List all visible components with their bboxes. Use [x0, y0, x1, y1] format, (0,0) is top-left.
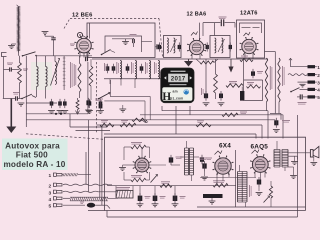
- IF T2 trimmer caps: [206, 42, 233, 51]
- ground G3: [112, 39, 134, 45]
- wire badge drops: [162, 106, 190, 134]
- label tube 12AT6: [240, 11, 258, 17]
- svg-text:4: 4: [49, 197, 52, 203]
- connector pin 1: [308, 65, 320, 70]
- svg-text:3: 3: [49, 190, 52, 196]
- switch S1c: [101, 50, 115, 56]
- wire rail R4: [97, 124, 263, 126]
- label values rotated: [71, 62, 76, 88]
- resistor R21 below V4: [124, 172, 150, 182]
- ground G7: [288, 167, 297, 179]
- resistor R15: [213, 181, 228, 187]
- capacitor C9: [130, 35, 137, 48]
- svg-text:12 BE6: 12 BE6: [72, 12, 93, 18]
- wire bank bottom rail: [104, 78, 161, 80]
- svg-text:6AQ5: 6AQ5: [251, 144, 269, 151]
- iron choke CH2: [116, 186, 133, 198]
- wire mid row: [26, 102, 57, 104]
- wire V3 pins: [245, 53, 253, 59]
- resistor R2: [78, 56, 81, 98]
- plug 5 left: [49, 202, 111, 210]
- wire vertical bus x26: [25, 56, 27, 127]
- svg-text:EL.com: EL.com: [170, 97, 183, 101]
- oscillator inner box: [105, 36, 152, 52]
- connector pin 4: [308, 88, 320, 93]
- wire pin2 coiled: [288, 74, 307, 76]
- wire bank drops: [110, 79, 135, 88]
- wire V1 pins: [70, 44, 88, 58]
- svg-text:Autovox para: Autovox para: [5, 141, 60, 150]
- wire rail y113.8: [26, 113, 88, 115]
- capacitor C1: [45, 36, 56, 56]
- svg-text:1: 1: [49, 173, 52, 179]
- capacitor C16: [85, 98, 92, 113]
- oscillator box B1: [87, 23, 155, 58]
- tube V1 12BE6: [74, 31, 93, 54]
- multi-section capacitor: [203, 194, 223, 204]
- resistor R16: [160, 182, 172, 188]
- capacitor C23 pin5: [297, 94, 308, 104]
- antenna input terminal: [2, 53, 7, 99]
- wire drop x206: [205, 59, 207, 93]
- IF T1 trimmer caps: [158, 42, 181, 51]
- wire V2 pins: [192, 54, 200, 59]
- capacitor C8 with ground: [97, 99, 104, 114]
- label tube 12BA6: [187, 11, 207, 17]
- coil L5: [132, 61, 137, 79]
- plug 4 left: [49, 197, 119, 203]
- switch S1b: [21, 94, 36, 99]
- capacitor C13: [126, 64, 130, 73]
- svg-text:2: 2: [49, 183, 52, 189]
- plug 1 left: [49, 173, 92, 179]
- interstage transformer T4: [185, 141, 194, 181]
- ground G4: [119, 105, 126, 112]
- title text Autovox: [2, 139, 68, 171]
- resistor R7: [247, 83, 261, 89]
- svg-text:12AT6: 12AT6: [240, 11, 258, 17]
- connector pin 5: [308, 95, 320, 100]
- capacitor C17: [95, 99, 103, 111]
- capacitor C25: [149, 155, 183, 165]
- switch S2: [98, 92, 110, 99]
- wire pin3 with ground: [298, 82, 308, 87]
- speaker: [289, 146, 319, 165]
- IF T2 primary: [215, 38, 216, 53]
- resistor R4: [214, 59, 218, 99]
- wire V5 pins: [217, 173, 229, 186]
- capacitor C7 with ground: [86, 99, 93, 114]
- wire mid verticals: [197, 150, 306, 207]
- resistor R10 on R2: [222, 112, 247, 117]
- antenna lead-in shielded wire: [17, 5, 21, 53]
- capacitor C5 with ground: [57, 99, 64, 114]
- resistor R6: [240, 56, 253, 62]
- plug 3 left: [49, 190, 119, 196]
- resistor R19: [89, 59, 93, 100]
- wire switch to right: [104, 96, 150, 120]
- wire rail R5: [104, 133, 256, 135]
- ground antenna: [8, 44, 16, 49]
- capacitor C28: [256, 177, 270, 203]
- volume arrow: [151, 174, 158, 182]
- resistor R18: [269, 181, 272, 207]
- wire rail R3: [26, 119, 275, 121]
- coil L7: [155, 61, 160, 79]
- arrow ground AVC: [184, 59, 193, 67]
- label tube 6X4: [219, 143, 231, 150]
- capacitor C20: [218, 91, 225, 106]
- dashed tuning gang vertical: [96, 62, 98, 134]
- svg-text:6X4: 6X4: [219, 143, 231, 150]
- ground G6: [119, 165, 135, 171]
- wire left bus verticals: [86, 120, 102, 205]
- resistor R11 on R4: [100, 121, 114, 127]
- capacitor C11: [105, 63, 110, 73]
- wire rail y185.7: [107, 185, 236, 187]
- connector pin 2: [308, 73, 320, 78]
- coil L1: [37, 56, 39, 97]
- resistor R14: [131, 143, 146, 149]
- capacitor C22: [240, 87, 244, 101]
- tube V3 12AT6: [240, 32, 259, 55]
- connector pin 3: [308, 80, 320, 85]
- label tube 12BE6: [72, 12, 93, 18]
- capacitor C30 electrolytic: [152, 186, 166, 207]
- capacitor C27: [199, 158, 208, 180]
- arrow to antenna: [6, 99, 16, 134]
- ground G5: [203, 103, 210, 106]
- wire bank top rail: [92, 58, 268, 60]
- capacitor C29 electrolytic: [137, 186, 151, 207]
- wire return bus: [107, 115, 298, 217]
- coil L2: [46, 56, 48, 99]
- svg-text:am: am: [173, 90, 178, 94]
- arrow down AVC2: [228, 59, 233, 73]
- wire top coupling: [203, 23, 235, 36]
- tube V5 6X4: [213, 151, 234, 176]
- output transformer T5: [274, 141, 288, 171]
- IF transformer T3 can: [237, 20, 265, 58]
- IF transformer T1 can: [164, 36, 182, 58]
- capacitor C31 electrolytic: [172, 186, 186, 207]
- detector network box: [240, 58, 263, 101]
- wire bottom rail: [88, 210, 306, 212]
- capacitor C26: [200, 155, 212, 165]
- dashed tuning gang bottom: [26, 134, 104, 140]
- capacitor C12: [112, 64, 116, 73]
- resistor R5: [226, 82, 243, 88]
- wire rail drops right: [256, 111, 283, 139]
- dashed tuning gang top: [64, 18, 163, 57]
- tube V2 12BA6: [187, 23, 206, 56]
- wire rail R2: [140, 114, 283, 116]
- capacitor C24: [273, 118, 290, 133]
- label tube 6AQ5: [251, 144, 269, 151]
- capacitor C19: [202, 88, 209, 101]
- resistor R13 on R4: [140, 121, 211, 127]
- resistor R3 with arrow: [76, 98, 80, 114]
- capacitor C6 with ground: [61, 99, 68, 114]
- svg-text:2017: 2017: [171, 75, 186, 82]
- capacitor C4 with ground: [48, 99, 55, 114]
- resistor R8 tall: [265, 58, 272, 111]
- IF T1 primary: [167, 38, 168, 53]
- coil L4: [117, 61, 122, 79]
- wire x110 vertical: [110, 80, 112, 96]
- chassis box B: [105, 137, 306, 210]
- svg-text:12 BA6: 12 BA6: [187, 11, 207, 17]
- wire grid line: [89, 23, 91, 31]
- wire front-end box bottom: [70, 114, 110, 131]
- wire V6 pins: [255, 172, 265, 182]
- capacitor C21: [251, 69, 263, 78]
- capacitor C15: [86, 57, 88, 62]
- filter choke CH1: [238, 165, 252, 207]
- svg-text:Fiat 500: Fiat 500: [16, 151, 48, 160]
- capacitor C2: [4, 63, 20, 72]
- tube V6 6AQ5: [250, 150, 270, 174]
- capacitor C14: [140, 64, 144, 73]
- plug 2 left: [49, 183, 113, 189]
- wire right bus: [265, 52, 282, 120]
- ground G2: [42, 32, 49, 37]
- resistor R1: [18, 56, 28, 106]
- coil L6: [146, 61, 151, 79]
- wire rail R1: [162, 110, 268, 112]
- svg-text:5: 5: [49, 204, 52, 210]
- resistor R20: [196, 59, 218, 64]
- resistor R9 tall: [278, 58, 284, 114]
- wire T4 area: [180, 156, 199, 158]
- IF transformer T2 can: [210, 36, 230, 58]
- wire x88 vertical: [87, 62, 89, 110]
- watermark badge 2017: [161, 68, 194, 103]
- trimmer CV1: [63, 56, 66, 90]
- capacitor C18: [219, 17, 227, 26]
- IF T2 secondary: [218, 38, 225, 53]
- switch S3 pin4: [290, 88, 307, 93]
- wire front-end top rail: [36, 55, 92, 57]
- IF T1 secondary: [170, 38, 176, 53]
- capacitor C10: [155, 44, 159, 49]
- svg-text:modelo RA - 10: modelo RA - 10: [3, 160, 65, 169]
- capacitor C3: [3, 93, 22, 101]
- resistor R17 on R3: [132, 118, 147, 121]
- switch S1a: [19, 52, 37, 57]
- coil L3 adjustable: [51, 56, 60, 86]
- tube V4 12AV6: [124, 147, 151, 173]
- wire pin1: [289, 58, 308, 66]
- resistor R12 on R4: [120, 121, 136, 127]
